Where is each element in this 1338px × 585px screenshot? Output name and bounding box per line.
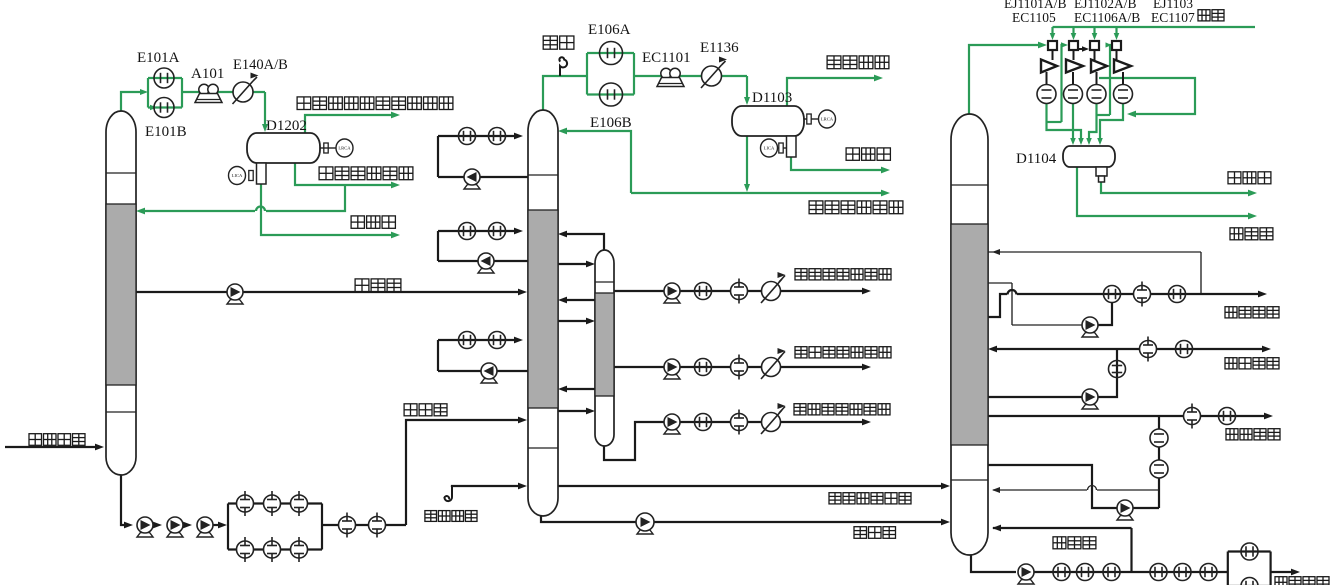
svg-text:EC1106A/B: EC1106A/B bbox=[1074, 10, 1140, 25]
svg-text:LICA: LICA bbox=[232, 173, 243, 178]
svg-text:E106B: E106B bbox=[590, 115, 632, 131]
svg-text:LICA: LICA bbox=[764, 146, 775, 151]
svg-text:E140A/B: E140A/B bbox=[233, 57, 288, 73]
svg-text:D1202: D1202 bbox=[266, 118, 307, 134]
svg-text:EC1105: EC1105 bbox=[1012, 10, 1056, 25]
svg-text:EC1101: EC1101 bbox=[642, 50, 691, 66]
svg-text:LRCA: LRCA bbox=[821, 117, 834, 122]
svg-text:LRCA: LRCA bbox=[338, 146, 351, 151]
svg-text:E106A: E106A bbox=[588, 22, 631, 38]
svg-text:EC1107: EC1107 bbox=[1151, 10, 1195, 25]
svg-text:E101A: E101A bbox=[137, 50, 180, 66]
svg-text:A101: A101 bbox=[191, 66, 224, 82]
svg-text:E101B: E101B bbox=[145, 124, 187, 140]
svg-text:D1103: D1103 bbox=[752, 90, 792, 106]
svg-text:E1136: E1136 bbox=[700, 40, 739, 56]
svg-text:D1104: D1104 bbox=[1016, 151, 1057, 167]
